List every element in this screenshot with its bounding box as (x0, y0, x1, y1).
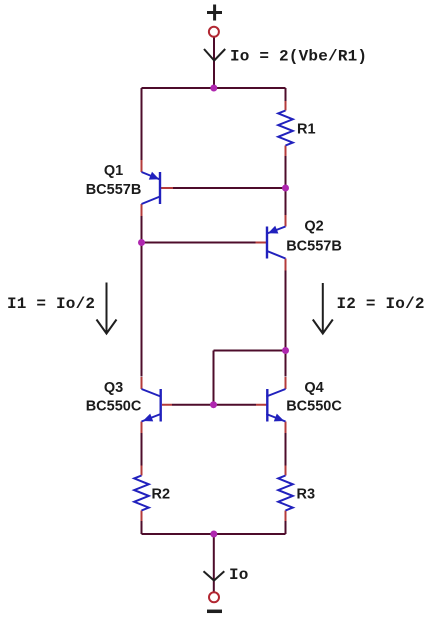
svg-text:Q4: Q4 (304, 380, 323, 396)
svg-text:Io: Io (229, 566, 249, 584)
svg-text:I1 = Io/2: I1 = Io/2 (7, 295, 95, 313)
svg-text:Io = 2(Vbe/R1): Io = 2(Vbe/R1) (230, 48, 367, 66)
svg-text:R2: R2 (152, 487, 171, 503)
svg-text:Q1: Q1 (104, 163, 123, 179)
svg-text:BC550C: BC550C (286, 398, 342, 414)
svg-text:Q2: Q2 (304, 219, 323, 235)
svg-text:R1: R1 (297, 122, 316, 138)
svg-text:I2 = Io/2: I2 = Io/2 (337, 295, 425, 313)
svg-text:R3: R3 (297, 487, 316, 503)
svg-text:BC550C: BC550C (86, 398, 142, 414)
svg-text:BC557B: BC557B (286, 239, 342, 255)
svg-text:BC557B: BC557B (86, 182, 142, 198)
svg-text:Q3: Q3 (104, 380, 123, 396)
